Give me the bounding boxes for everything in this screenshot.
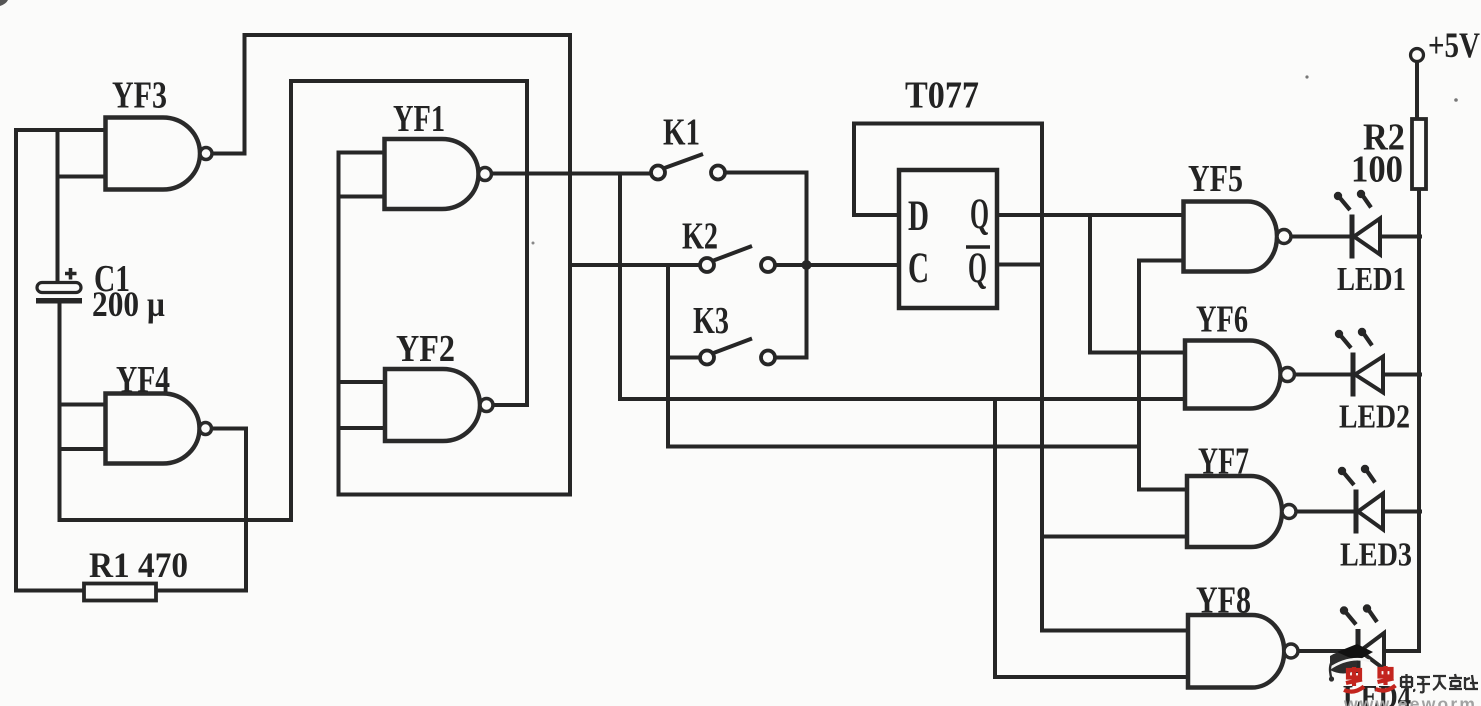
junction node K2-K3 right contacts [802,260,812,270]
svg-text:Q: Q [970,191,989,238]
watermark text dianzi xiazaizhan [1401,674,1478,692]
label +5V [1428,25,1480,65]
svg-text:100: 100 [1351,149,1403,191]
svg-text:YF7: YF7 [1198,441,1249,483]
switch K2 [700,246,775,272]
wire K1 right contact down to K2/K3 junction [726,173,807,358]
wire Qbar output stub [997,263,1042,267]
label R2 [1363,117,1405,159]
svg-text:C: C [908,245,929,292]
value label 200u [92,284,165,324]
svg-text:YF5: YF5 [1188,158,1243,200]
label YF7 [1198,441,1249,483]
wire K3 left net from K2 wire down and across to YF5/YF7 vertical [668,265,1139,447]
pin label Qbar [966,245,990,292]
label K2 [682,216,718,258]
wire K2 right contact to T077 C input [776,263,899,267]
label LED3 [1340,537,1412,574]
wire YF4 input stub upper [60,403,106,407]
svg-text:T077: T077 [905,75,979,117]
wire YF2 output loop to YF4 inputs [60,81,528,520]
switch K1 [651,154,725,180]
wire branch from K1 wire down and across to YF6 input [620,174,1185,400]
+5V supply terminal [1411,49,1424,62]
flip-flop U1 T077 box [899,170,997,308]
label YF1 [393,98,445,140]
svg-text:LED1: LED1 [1337,261,1406,298]
wire +5V terminal to R2 [1415,62,1419,120]
svg-text:YF3: YF3 [112,75,167,117]
resistor R2 [1412,119,1426,189]
wire Qbar branch to YF7 lower input [1042,535,1187,539]
NAND gate YF5 [1184,202,1292,272]
NAND gate YF7 [1187,476,1296,547]
wire YF4 output down to R1 [156,429,246,591]
label LED4 [1343,679,1411,706]
wire YF5 output to LED1 [1291,235,1352,239]
pin label C [908,245,929,292]
label K3 [693,300,729,342]
svg-text:+5V: +5V [1428,25,1480,65]
svg-text:LED3: LED3 [1340,537,1412,574]
wire K3 right stub [776,356,807,360]
wire YF2 input stub lower [339,426,386,430]
wire branch down to YF8 lower input [995,399,1188,677]
value label 100 [1351,149,1403,191]
NAND gate YF3 [106,118,213,190]
svg-text:K3: K3 [693,300,729,342]
NAND gate YF6 [1185,341,1295,409]
wire YF5 lower input down to YF7 upper input [1139,261,1187,490]
svg-text:R1 470: R1 470 [89,545,188,585]
wire LED3 to supply rail [1383,510,1420,514]
LED4 symbol [1340,604,1384,673]
NAND gate YF1 [385,139,492,209]
label R1 470 [89,545,188,585]
NAND gate YF8 [1188,615,1298,688]
switch K3 [700,339,775,365]
svg-text:YF4: YF4 [116,359,170,401]
wire T077 feedback loop D input and Qbar vertical down to YF8 [854,124,1188,631]
wire R1 left up to YF3 input [16,130,106,591]
label YF8 [1196,580,1251,622]
svg-text:200 µ: 200 µ [92,284,165,324]
wire C1 top plate up to YF3 inputs [58,130,106,283]
label YF6 [1196,299,1248,341]
resistor R1 [84,584,156,601]
wire YF7 output to LED3 [1296,510,1356,514]
wire YF4 input stub lower [60,447,106,451]
wire LED1 to supply rail [1380,235,1420,239]
label YF4 [116,359,170,401]
svg-text:D: D [908,193,929,240]
label K1 [663,112,700,154]
svg-text:YF6: YF6 [1196,299,1248,341]
wire YF1 input stub lower [339,195,385,199]
wire supply rail from R2 down to LED4 [1384,189,1419,651]
watermark red characters chongchong [1344,666,1396,692]
wire K2 tap from vertical [570,263,700,267]
pin label D [908,193,929,240]
svg-text:www.eeworm.com: www.eeworm.com [1343,694,1481,706]
svg-text:YF1: YF1 [393,98,445,140]
svg-text:YF8: YF8 [1196,580,1251,622]
wire LED2 to supply rail [1383,373,1420,377]
wire YF1 output to K1 [492,172,651,176]
NAND gate YF2 [385,369,493,441]
wire YF6 output to LED2 [1295,373,1354,377]
wire YF1 input stub upper [339,151,385,155]
wire Q branch down to YF6 upper input [1090,215,1185,353]
label YF3 [112,75,167,117]
watermark url eeworm.com [1343,694,1481,706]
wire Q output to YF5 input [997,213,1184,217]
watermark graduation cap logo [1329,644,1373,682]
label LED2 [1339,399,1410,436]
label T077 [905,75,979,117]
wire C1 bottom plate down to YF4 input rail [58,304,62,520]
wire K3 left stub [668,356,699,360]
capacitor C1 [36,268,82,304]
pin label Q [970,191,989,238]
svg-text:LED2: LED2 [1339,399,1410,436]
LED2 symbol [1335,328,1383,397]
svg-text:YF2: YF2 [396,328,455,370]
svg-text:K2: K2 [682,216,718,258]
label C1 [94,258,130,300]
NAND gate YF4 [106,394,212,464]
scan blemish top-left corner [0,0,8,6]
label LED1 [1337,261,1406,298]
scan speck [532,75,1458,244]
LED3 symbol [1338,465,1383,534]
svg-text:Q: Q [968,245,987,292]
svg-text:K1: K1 [663,112,700,154]
LED1 symbol [1334,190,1380,259]
wire YF2 input stub upper [339,380,386,384]
label YF5 [1188,158,1243,200]
label YF2 [396,328,455,370]
wire YF8 output to LED4 [1298,649,1358,653]
wire YF3 output loop (up, across top, down right side, back under YF1/YF2) [212,35,570,495]
